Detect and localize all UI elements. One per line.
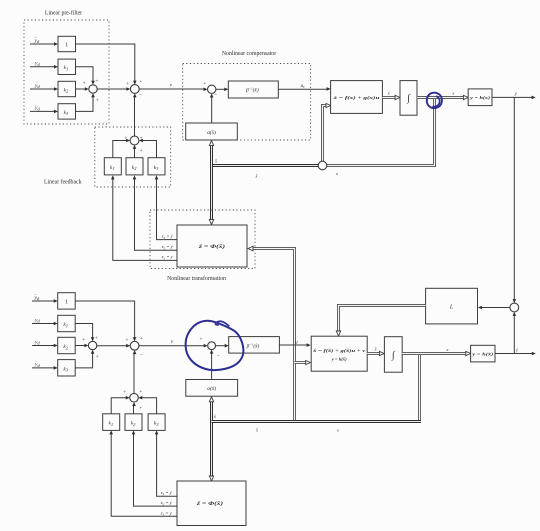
double wire xhat from observer into Phi right side (248, 246, 295, 421)
label z2=ydot (top) (161, 244, 174, 250)
double wire L output into observer top (336, 306, 425, 337)
svg-text:k3: k3 (63, 367, 68, 373)
wire k2b-fb to S2b (132, 402, 136, 414)
svg-text:x: x (335, 171, 338, 176)
svg-text:k2: k2 (64, 87, 69, 93)
block k2 (bottom prefilter) (58, 337, 75, 353)
svg-text:−: − (214, 93, 217, 99)
svg-text:k2: k2 (132, 165, 137, 171)
svg-text:y = h(x): y = h(x) (469, 95, 491, 100)
svg-text:k1: k1 (108, 421, 113, 427)
svg-text:+: + (139, 79, 142, 85)
svg-text:...: ... (34, 34, 37, 39)
svg-text:k1: k1 (110, 165, 115, 171)
block k1 (bottom prefilter) (58, 315, 75, 331)
svg-text:+: + (140, 336, 143, 342)
wire block 1 to J1 (76, 44, 137, 85)
wire input ydot_d (30, 79, 58, 91)
label z3=yddot (top) (161, 234, 174, 240)
wire J1b to J2b, label v (139, 339, 208, 347)
wire S1b to J1b (97, 344, 130, 348)
svg-text:x: x (445, 347, 448, 352)
svg-text:.: . (36, 335, 37, 340)
svg-text:x̂ = f(x̂) + g(x̂)u + v: x̂ = f(x̂) + g(x̂)u + v (312, 348, 367, 353)
wire S2 to J1 (133, 93, 137, 136)
block beta^-1 (bottom) (229, 337, 280, 354)
svg-text:yd: yd (34, 61, 40, 67)
svg-text:.: . (36, 79, 37, 84)
svg-text:1: 1 (65, 42, 68, 48)
svg-text:+: + (83, 80, 86, 86)
block k3 (top prefilter) (58, 104, 76, 119)
wire alpha_b to J2b (minus input) (210, 350, 214, 380)
wire h output y (top) (492, 91, 536, 99)
annotation blue loop (bottom) (186, 321, 244, 370)
block integrator (bottom) (384, 337, 402, 373)
svg-text:−: − (217, 354, 220, 360)
svg-text:yd: yd (34, 317, 40, 323)
double wire observer to integrator, label xhat (367, 346, 384, 355)
wire k2b to sum S1b (75, 344, 88, 348)
wire beta output u_c to plant (278, 83, 330, 91)
svg-text:ẑ = Φ(x̂): ẑ = Φ(x̂) (198, 243, 226, 250)
block Phi (top) z=Phi(x) (177, 225, 247, 267)
svg-text:+: + (125, 338, 128, 344)
double wire vertical x into alpha and Phi (209, 141, 217, 225)
svg-text:+: + (95, 335, 98, 341)
svg-text:+: + (203, 81, 206, 87)
wire z3 from Phi to k3fb (155, 175, 177, 239)
wire error junction to L block (478, 306, 510, 310)
summing junction S1 (top prefilter) (83, 79, 99, 104)
block 1 (bottom prefilter) (58, 293, 75, 309)
svg-text:x̂: x̂ (374, 346, 377, 351)
pickoff circle C1 on x line (255, 161, 339, 178)
wire z1 from Phi to k1fb (111, 175, 177, 260)
block plant xdot=f(x)+g(x)u (331, 81, 383, 114)
block Phi (bottom) (177, 481, 246, 526)
svg-text:β−1(x̂): β−1(x̂) (246, 342, 260, 349)
wire beta_b output u to observer (279, 340, 310, 347)
svg-text:+: + (139, 405, 142, 411)
block k2 (top feedback) (126, 158, 143, 175)
block alpha (bottom) (186, 380, 238, 397)
block y=h(x) (top) (468, 89, 492, 106)
wire input yddot_d (bottom) (32, 358, 58, 370)
svg-text:+: + (139, 389, 142, 395)
wire alpha to J2 (minus input) (210, 94, 214, 124)
wire y down to observer error junction (513, 97, 517, 303)
double wire plant to integrator, label xdot (382, 90, 400, 99)
double wire integrator_b to h_b (402, 347, 470, 356)
wire k3fb to S2 (139, 139, 157, 158)
wire input ydot_d (bottom) (32, 335, 58, 347)
wire yhat up to error junction (513, 312, 517, 354)
summing junction J2 (top compensator) (203, 81, 217, 99)
svg-text:yd: yd (34, 295, 40, 301)
svg-text:Linear pre-filter: Linear pre-filter (45, 10, 82, 17)
block alpha (top) (186, 123, 238, 140)
block k2 (top prefilter) (58, 81, 76, 96)
summing junction S1b (bottom prefilter) (82, 335, 98, 360)
wire block 1b to J1b (75, 301, 136, 341)
wire k1b to sum S1b (75, 324, 94, 342)
svg-text:+: + (140, 148, 143, 154)
svg-text:α(x̂): α(x̂) (207, 129, 216, 136)
svg-text:L: L (449, 304, 454, 310)
svg-text:+: + (126, 81, 129, 87)
svg-text:ẋ = f(x) + g(x)u: ẋ = f(x) + g(x)u (332, 95, 380, 100)
wire k1b-fb to S2b (111, 396, 130, 414)
svg-text:ẑ = Φ(x̂): ẑ = Φ(x̂) (196, 500, 224, 507)
wire k2 to sum S1 (76, 87, 89, 91)
block k1 (top prefilter) (58, 59, 76, 74)
svg-text:x: x (451, 91, 454, 96)
svg-text:...: ... (34, 291, 37, 296)
wire z2 from Phi to k2fb (133, 175, 177, 250)
wire input y_d(3) (30, 34, 58, 46)
svg-text:y = h(x̂): y = h(x̂) (471, 352, 494, 357)
svg-text:1: 1 (65, 300, 68, 306)
double wire xhat vertical below alpha_b to Phi_b (209, 397, 216, 481)
svg-text:−: − (140, 353, 143, 359)
wire z3b from Phi_b to k3b-fb (155, 430, 177, 496)
dashed box: nonlinear compensator (183, 64, 311, 141)
block k1 (bottom feedback) (103, 414, 120, 431)
svg-text:+: + (95, 79, 98, 85)
svg-text:..: .. (35, 358, 37, 363)
svg-text:β−1(x̂): β−1(x̂) (245, 87, 259, 94)
wire input y_d (30, 61, 58, 69)
svg-text:+: + (96, 98, 99, 104)
summing junction J2b (bottom compensator) (199, 336, 219, 359)
label z3=yddot (bottom) (160, 490, 173, 496)
svg-text:x̂: x̂ (213, 414, 216, 419)
svg-text:k2: k2 (131, 421, 136, 427)
dashed box: linear pre-filter (24, 20, 109, 124)
double wire integrator to h block (417, 91, 468, 100)
wire k3b to sum S1b (75, 350, 94, 368)
svg-text:k1: k1 (63, 322, 68, 328)
wire J1 to J2, label v (139, 83, 207, 92)
block k3 (bottom prefilter) (58, 360, 75, 376)
wire k1fb to S2 (113, 139, 130, 158)
wire k2fb to S2 (133, 145, 137, 158)
svg-text:α(x̂): α(x̂) (207, 385, 216, 392)
dashed box: linear feedback (95, 127, 171, 187)
wire S1 to J1 (97, 87, 130, 91)
svg-text:+: + (199, 336, 202, 342)
svg-text:x: x (336, 428, 339, 433)
summing junction error (y - yhat) (510, 303, 519, 312)
label z1=y (top) (161, 254, 174, 260)
svg-text:k1: k1 (64, 65, 69, 71)
double wire xhat self-feedback into observer (295, 360, 311, 364)
svg-text:+: + (123, 390, 126, 396)
wire input y_d (bottom) (32, 317, 58, 325)
block observer (311, 336, 367, 371)
wire h_b output yhat (495, 347, 536, 355)
svg-text:k3: k3 (154, 165, 159, 171)
block k3 (bottom feedback) (148, 414, 165, 431)
double wire x to transformation/alpha tee (212, 164, 319, 167)
label z1=y (bottom) (160, 510, 173, 516)
svg-text:−: − (139, 93, 142, 99)
wire input yddot_d (30, 101, 58, 113)
label z2=ydot (bottom) (160, 500, 173, 506)
double wire x state: from integrator down and left to pickoff circle C1 (327, 98, 435, 166)
block beta^-1 (top) (228, 81, 278, 98)
block k1 (top feedback) (104, 158, 121, 175)
svg-text:Nonlinear compensator: Nonlinear compensator (222, 51, 276, 57)
svg-text:+: + (96, 354, 99, 360)
block L observer gain (426, 288, 478, 324)
double wire x self-feedback into plant (323, 103, 331, 161)
svg-text:x̂: x̂ (255, 174, 258, 179)
wire S2b to J1b (133, 350, 137, 393)
block k3 (top feedback) (148, 158, 165, 175)
svg-text:k2: k2 (63, 344, 68, 350)
svg-text:k3: k3 (64, 110, 69, 116)
svg-text:u: u (295, 340, 298, 346)
wire J2 to beta block (216, 88, 228, 92)
summing junction S2 (top feedback) (124, 135, 142, 154)
svg-text:..: .. (35, 101, 37, 106)
wire input y_d(3) (bottom) (32, 291, 58, 303)
svg-text:y = h(x̂): y = h(x̂) (331, 357, 347, 362)
svg-text:x̂: x̂ (214, 159, 217, 164)
summing junction S2b (bottom feedback) (123, 389, 142, 412)
svg-text:k3: k3 (154, 421, 159, 427)
block k2 (bottom feedback) (125, 414, 142, 431)
wire z2b from Phi_b to k2b-fb (132, 430, 177, 506)
block integrator (top) (400, 81, 417, 116)
svg-text:Nonlinear transformation: Nonlinear transformation (167, 275, 226, 282)
block 1 (top prefilter) (58, 36, 76, 51)
wire k1 to sum S1 (76, 67, 95, 85)
wire k3 to sum S1 (76, 93, 95, 111)
annotation blue circle (top) (427, 93, 442, 109)
svg-text:x̂: x̂ (255, 428, 258, 433)
block y=h(x) (bottom) (471, 345, 495, 362)
dashed box: nonlinear transformation (150, 210, 255, 269)
svg-text:+: + (82, 337, 85, 343)
svg-text:Linear feedback: Linear feedback (44, 178, 82, 185)
double wire xhat horizontal distribution line (212, 354, 421, 433)
wire k3b-fb to S2b (138, 396, 156, 414)
svg-text:yd: yd (34, 38, 40, 44)
wire z1b from Phi_b to k1b-fb (109, 430, 177, 516)
summing junction J1 (top main) (126, 79, 142, 98)
wire J2b to beta block (216, 344, 229, 348)
summing junction J1b (bottom main) (125, 336, 142, 359)
